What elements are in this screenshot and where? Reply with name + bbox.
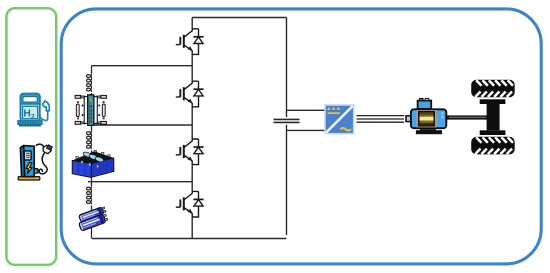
right DC bus wire (286, 18, 288, 236)
inductor L1 (87, 74, 92, 92)
left DC bus wire (91, 66, 93, 239)
inductor L2 (87, 131, 92, 149)
supercapacitor icon (76, 206, 109, 231)
DC output wires to inverter (287, 109, 326, 111)
svg-text:2: 2 (31, 113, 35, 120)
EV charging station icon (18, 144, 52, 180)
H2 fueling station icon (18, 94, 49, 127)
green refuel-station border box (6, 8, 56, 265)
IGBT Q4 (176, 191, 204, 217)
axle I-beam (480, 99, 506, 104)
motor shaft (447, 115, 488, 119)
three-phase wires (357, 116, 405, 123)
rail 3 wire (88, 181, 192, 183)
fuel cell stack icon (75, 94, 106, 126)
bottom rail wire (92, 238, 287, 240)
svg-text:H: H (24, 109, 31, 120)
rail 2 wire (92, 124, 193, 126)
top rail wire (192, 17, 286, 19)
IGBT Q2 (176, 81, 204, 107)
IGBT chain vertical wire (191, 18, 193, 239)
battery pack icon (72, 151, 114, 178)
IGBT Q3 (176, 139, 204, 165)
IGBT Q1 (176, 29, 204, 55)
wheels and axle (471, 80, 515, 155)
inverter box (325, 105, 354, 134)
inductor L3 (87, 186, 92, 204)
electric motor icon (406, 98, 446, 134)
bottom tire (471, 137, 515, 155)
top tire (471, 80, 515, 98)
rail 1 wire (92, 65, 193, 67)
DC link capacitor (274, 118, 300, 120)
